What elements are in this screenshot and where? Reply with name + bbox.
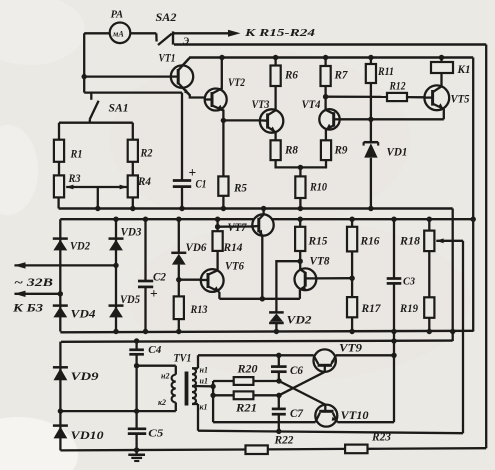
svg-text:+: + <box>150 286 158 301</box>
svg-text:R22: R22 <box>274 434 294 446</box>
svg-text:к2: к2 <box>158 398 166 407</box>
svg-text:VT7: VT7 <box>228 222 248 234</box>
svg-text:VD3: VD3 <box>121 227 142 239</box>
svg-text:С4: С4 <box>148 344 161 356</box>
svg-text:VD6: VD6 <box>186 242 207 254</box>
svg-text:VT8: VT8 <box>310 255 330 267</box>
svg-text:мА: мА <box>112 30 125 39</box>
svg-text:VT5: VT5 <box>451 94 470 106</box>
svg-text:н1: н1 <box>200 366 208 375</box>
svg-text:VT3: VT3 <box>252 99 270 111</box>
svg-text:VD2: VD2 <box>70 241 90 253</box>
svg-text:R18: R18 <box>399 236 420 248</box>
svg-text:C2: C2 <box>153 272 166 284</box>
svg-text:R6: R6 <box>284 70 298 82</box>
svg-text:С6: С6 <box>290 365 303 377</box>
svg-text:К R15-R24: К R15-R24 <box>244 27 316 39</box>
svg-text:R15: R15 <box>308 236 328 248</box>
svg-text:К Б3: К Б3 <box>12 301 43 315</box>
svg-text:VD9: VD9 <box>71 371 99 383</box>
svg-text:VT1: VT1 <box>159 53 176 65</box>
svg-text:R12: R12 <box>389 81 406 93</box>
svg-text:VD2: VD2 <box>287 315 312 327</box>
svg-text:РА: РА <box>111 10 124 21</box>
svg-text:R2: R2 <box>140 148 153 160</box>
svg-text:R20: R20 <box>236 363 257 375</box>
svg-text:R8: R8 <box>284 145 298 157</box>
svg-text:VT4: VT4 <box>302 99 321 111</box>
svg-text:н2: н2 <box>161 372 169 381</box>
svg-text:SA2: SA2 <box>156 12 177 24</box>
svg-text:К1: К1 <box>457 64 471 76</box>
svg-text:R23: R23 <box>371 431 391 443</box>
svg-text:SA1: SA1 <box>109 103 129 115</box>
svg-text:C1: C1 <box>196 179 207 191</box>
svg-text:TV1: TV1 <box>174 352 192 364</box>
svg-text:R21: R21 <box>235 402 257 414</box>
svg-text:R10: R10 <box>309 182 327 194</box>
svg-text:R4: R4 <box>137 176 151 188</box>
svg-text:R3: R3 <box>68 173 81 185</box>
svg-text:R16: R16 <box>360 236 380 248</box>
svg-text:R19: R19 <box>399 303 418 315</box>
svg-text:VT2: VT2 <box>228 77 245 89</box>
svg-text:R14: R14 <box>223 242 243 254</box>
svg-text:R17: R17 <box>361 303 382 315</box>
svg-text:VD4: VD4 <box>71 309 96 321</box>
svg-text:R1: R1 <box>70 149 83 161</box>
svg-text:С5: С5 <box>148 428 164 440</box>
svg-text:+: + <box>189 165 197 180</box>
svg-text:к1: к1 <box>200 403 208 412</box>
svg-text:VD1: VD1 <box>387 147 408 159</box>
svg-text:VT9: VT9 <box>339 342 362 354</box>
svg-text:R11: R11 <box>377 66 394 78</box>
svg-text:VD5: VD5 <box>120 294 140 306</box>
svg-text:C3: C3 <box>403 275 415 287</box>
svg-text:R5: R5 <box>233 183 247 195</box>
svg-text:VD10: VD10 <box>71 430 104 442</box>
svg-text:VT6: VT6 <box>225 260 244 272</box>
svg-text:R9: R9 <box>334 145 348 157</box>
svg-text:С7: С7 <box>290 408 304 420</box>
svg-text:и1: и1 <box>200 377 208 386</box>
svg-text:Э: Э <box>183 37 189 47</box>
svg-text:R7: R7 <box>334 70 349 82</box>
svg-text:VT10: VT10 <box>341 410 369 422</box>
svg-text:~ 32В: ~ 32В <box>14 275 53 289</box>
svg-text:R13: R13 <box>190 304 208 316</box>
